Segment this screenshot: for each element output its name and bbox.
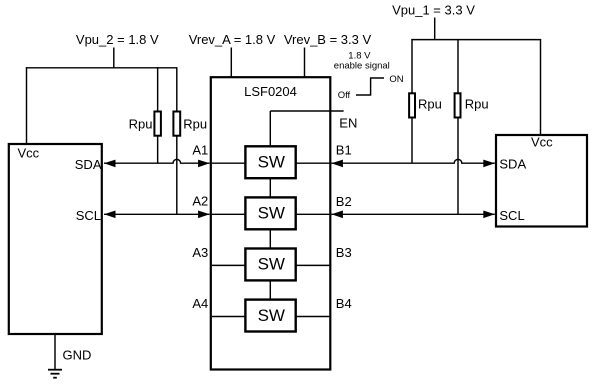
svg-text:Rpu: Rpu — [418, 97, 442, 112]
resistor Rpu right2 — [455, 93, 461, 117]
wire EN horizontal — [270, 110, 343, 112]
svg-text:Vcc: Vcc — [18, 146, 40, 161]
wire SCL left — [104, 213, 210, 215]
wire Vpu_2 stub — [113, 48, 115, 69]
wire EN vertical to SW1 — [269, 111, 271, 146]
switch SW3 box — [245, 249, 295, 281]
wire B1 to right device SDA (hop over Rpu right2 lead) — [331, 159, 494, 163]
svg-text:SW: SW — [258, 204, 285, 223]
wire A4 to SW4 — [212, 316, 246, 318]
svg-text:Vcc: Vcc — [531, 134, 553, 149]
resistor Rpu left1 — [154, 112, 161, 136]
wire Rpu left2 bottom lead to SCL — [176, 135, 178, 214]
svg-text:Off: Off — [338, 90, 351, 101]
resistor Rpu left2 — [173, 112, 180, 136]
svg-text:SDA: SDA — [499, 156, 526, 171]
svg-text:LSF0204: LSF0204 — [244, 84, 297, 99]
wire SW3-SW4 link — [269, 279, 271, 300]
wire SW1-SW2 link — [269, 177, 271, 198]
right device block — [496, 135, 587, 227]
wire Vrev_B stub — [304, 48, 306, 79]
wire A3 to SW3 — [212, 264, 246, 266]
left device block — [9, 144, 102, 334]
svg-text:SCL: SCL — [499, 208, 524, 223]
svg-text:SDA: SDA — [75, 157, 102, 172]
LSF0204 device block U1 — [211, 77, 330, 369]
arrow SCL into left device — [104, 211, 116, 219]
wire A2 to SW2 — [212, 213, 246, 215]
svg-text:GND: GND — [63, 348, 92, 363]
wire Vrev_A stub — [230, 48, 232, 79]
svg-text:A1: A1 — [192, 143, 208, 158]
wire SW3 to B3 — [295, 264, 329, 266]
wire Rpu right1 bottom lead to SDA — [411, 117, 413, 163]
svg-text:Rpu: Rpu — [129, 116, 153, 131]
svg-text:ON: ON — [389, 74, 403, 85]
enable signal waveform — [356, 78, 384, 95]
arrow SDA into left device — [104, 160, 116, 168]
svg-text:A4: A4 — [192, 296, 208, 311]
arrow into right device SCL — [483, 211, 495, 219]
wire Vpu_1 rail to right device Vcc — [540, 39, 542, 135]
wire SW4 to B4 — [295, 316, 329, 318]
wire SW2 to B2 — [295, 213, 329, 215]
arrow B2 into LSF0204 — [331, 211, 343, 219]
svg-text:Vpu_1 = 3.3 V: Vpu_1 = 3.3 V — [392, 3, 475, 18]
switch SW4 box — [245, 300, 295, 332]
wire Vpu_1 stub — [434, 18, 436, 41]
svg-text:B4: B4 — [336, 296, 352, 311]
arrow SDA into pin A1 — [198, 160, 210, 168]
switch SW1 box — [245, 146, 295, 178]
wire SW1 to B1 — [295, 162, 329, 164]
wire GND stub — [54, 335, 56, 370]
wire SDA left (hop over Rpu left2 lead) — [104, 159, 210, 163]
wire Rpu right1 top lead — [411, 39, 413, 94]
wire A1 to SW1 — [212, 162, 246, 164]
wire SW2-SW3 link — [269, 228, 271, 249]
switch SW2 box — [245, 197, 295, 229]
wire Vpu_1 rail — [411, 39, 541, 41]
wire Vpu_2 rail to left device Vcc — [26, 67, 28, 143]
svg-text:A2: A2 — [192, 194, 208, 209]
svg-text:B3: B3 — [336, 245, 352, 260]
arrow B1 into LSF0204 — [331, 160, 343, 168]
svg-text:SW: SW — [258, 306, 285, 325]
arrow into right device SDA — [483, 160, 495, 168]
wire Rpu left2 top lead — [176, 67, 178, 112]
svg-text:enable signal: enable signal — [334, 61, 390, 72]
svg-text:Rpu: Rpu — [183, 116, 207, 131]
arrow SCL into pin A2 — [198, 211, 210, 219]
svg-text:Vrev_B = 3.3 V: Vrev_B = 3.3 V — [284, 32, 372, 47]
svg-text:EN: EN — [339, 116, 357, 131]
wire Rpu left1 bottom lead to SDA — [157, 135, 159, 163]
ground symbol — [48, 370, 62, 378]
wire Rpu right2 top lead — [457, 39, 459, 94]
svg-text:B2: B2 — [336, 194, 352, 209]
svg-text:A3: A3 — [192, 245, 208, 260]
wire Rpu right2 bottom lead to SCL — [457, 117, 459, 214]
svg-text:SW: SW — [258, 255, 285, 274]
svg-text:Vrev_A = 1.8 V: Vrev_A = 1.8 V — [189, 32, 276, 47]
wire B2 to right device SCL — [331, 213, 494, 215]
svg-text:Rpu: Rpu — [465, 97, 489, 112]
wire Rpu left1 top lead — [157, 67, 159, 112]
svg-text:B1: B1 — [336, 143, 352, 158]
svg-text:Vpu_2 = 1.8 V: Vpu_2 = 1.8 V — [76, 32, 159, 47]
wire Vpu_2 rail — [26, 67, 177, 69]
resistor Rpu right1 — [409, 93, 415, 117]
svg-text:SW: SW — [258, 152, 285, 171]
svg-text:SCL: SCL — [76, 208, 101, 223]
